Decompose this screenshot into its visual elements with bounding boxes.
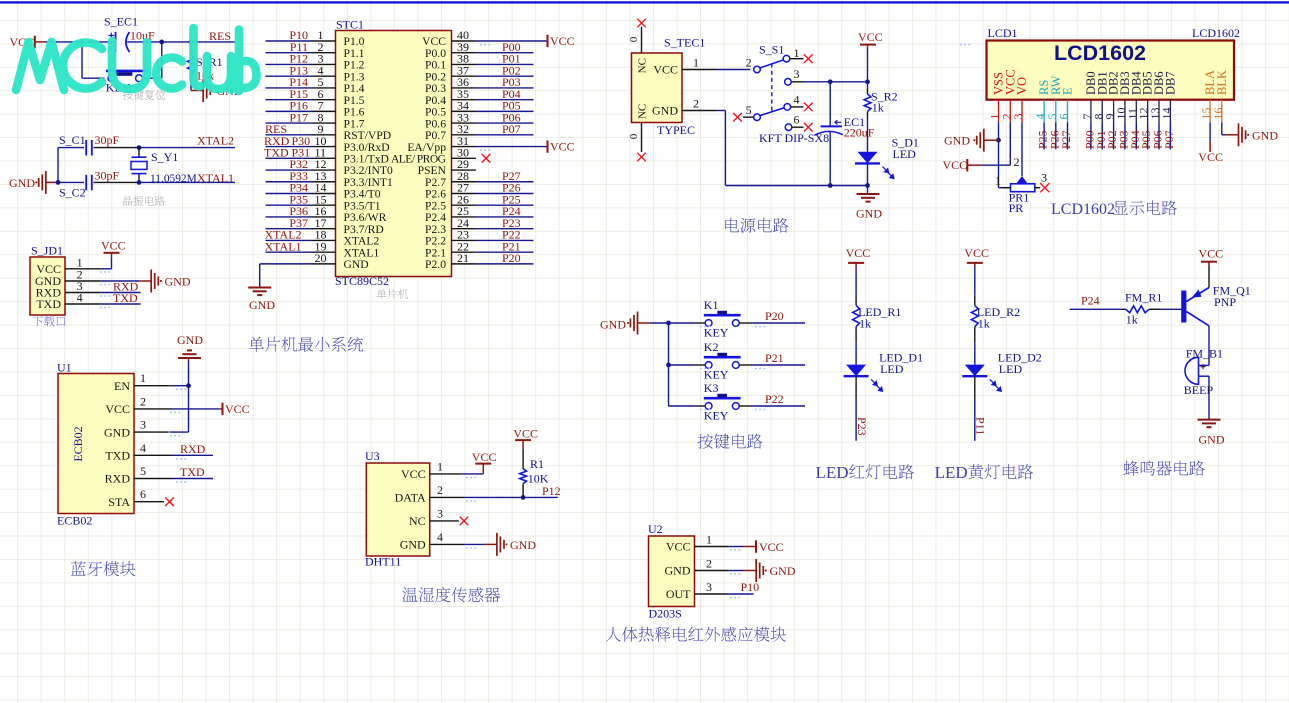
- pin 33: [452, 122, 476, 124]
- svg-text:P11: P11: [974, 417, 988, 435]
- wire: [717, 110, 726, 112]
- no-connect ALE: [482, 154, 491, 163]
- node pwr-led-bot: [865, 183, 870, 188]
- wire: [753, 322, 805, 324]
- node keys-2: [666, 363, 671, 368]
- wire: [266, 87, 312, 89]
- svg-text:20: 20: [315, 251, 327, 265]
- svg-text:GND: GND: [600, 318, 626, 332]
- pin 1: [998, 100, 1000, 123]
- wire: [169, 385, 189, 387]
- svg-text:16: 16: [1211, 108, 1225, 120]
- wire: [1221, 122, 1223, 135]
- key K2: [696, 364, 705, 366]
- pin 37: [452, 75, 476, 77]
- wire: [669, 322, 696, 324]
- wire: [753, 405, 805, 407]
- svg-text:P07: P07: [502, 122, 521, 136]
- wire: [476, 181, 534, 183]
- wire: [58, 181, 84, 183]
- capacitor S_C2: [85, 175, 87, 191]
- pin 19: [312, 251, 336, 253]
- svg-text:3: 3: [1041, 171, 1047, 185]
- svg-text:P20: P20: [765, 309, 784, 323]
- pin 6: [312, 99, 336, 101]
- node u1-gnd: [186, 383, 191, 388]
- svg-text:E: E: [1061, 87, 1075, 95]
- wire: [266, 134, 312, 136]
- svg-text:4: 4: [140, 441, 146, 455]
- svg-text:D203S: D203S: [649, 607, 682, 621]
- wire: [1208, 266, 1210, 288]
- wire: [266, 40, 312, 42]
- wire: [476, 228, 534, 230]
- wire: [974, 267, 976, 296]
- wire: [127, 41, 236, 43]
- wire: [476, 239, 534, 241]
- svg-text:K2: K2: [704, 340, 719, 354]
- pin 16: [312, 216, 336, 218]
- resistor FM_R1: [1122, 308, 1126, 310]
- svg-text:VCC: VCC: [105, 402, 130, 416]
- key K3: [696, 405, 705, 407]
- svg-text:S_C2: S_C2: [59, 186, 86, 200]
- svg-text:LCD1: LCD1: [988, 26, 1018, 40]
- wire: [172, 408, 220, 410]
- wire: [465, 543, 485, 545]
- svg-text:1k: 1k: [978, 317, 990, 331]
- pin 3: [695, 593, 729, 595]
- label 下载口: [33, 316, 66, 327]
- wire: [465, 496, 558, 498]
- power ground GND (S_JD1): [139, 280, 151, 282]
- svg-text:GND: GND: [104, 425, 130, 439]
- power port VCC (U3): [482, 464, 484, 474]
- svg-text:3: 3: [140, 418, 146, 432]
- buzzer FM_B1: [1185, 357, 1199, 384]
- svg-text:ECB02: ECB02: [57, 514, 92, 528]
- node pwr-vcc-r3: [865, 79, 870, 84]
- svg-text:21: 21: [457, 251, 469, 265]
- pin 3: [312, 63, 336, 65]
- svg-text:STC89C52: STC89C52: [335, 274, 389, 288]
- pin 4: [134, 454, 172, 456]
- wire: [476, 204, 534, 206]
- wire: [82, 77, 105, 79]
- pin 6: [785, 124, 792, 131]
- svg-text:EN: EN: [114, 379, 130, 393]
- pin 3: [430, 520, 459, 522]
- svg-text:4: 4: [77, 291, 83, 305]
- svg-text:GND: GND: [249, 298, 275, 312]
- svg-text:GND: GND: [1252, 128, 1278, 142]
- svg-text:NC: NC: [637, 104, 649, 119]
- wire: [476, 110, 534, 112]
- svg-text:30pF: 30pF: [95, 133, 120, 147]
- svg-text:KEY: KEY: [704, 409, 729, 423]
- svg-text:P10: P10: [741, 580, 760, 594]
- svg-text:6: 6: [1057, 114, 1071, 120]
- wire: [266, 192, 312, 194]
- wire: [139, 181, 235, 183]
- resistor S_R1: [190, 42, 192, 55]
- svg-text:LCD1602: LCD1602: [1051, 201, 1115, 218]
- wire: [170, 431, 189, 433]
- svg-text:VCC: VCC: [858, 30, 883, 44]
- earth ground (STC1): [248, 288, 271, 296]
- svg-text:NC: NC: [409, 514, 426, 528]
- node lcd-gnd: [996, 138, 1001, 143]
- svg-text:GND: GND: [165, 275, 191, 289]
- svg-text:S_EC1: S_EC1: [104, 15, 138, 29]
- svg-text:P22: P22: [765, 392, 784, 406]
- node xtal-gnd: [56, 180, 61, 185]
- wire: [81, 42, 83, 78]
- svg-text:LED: LED: [893, 147, 917, 161]
- wire: [190, 83, 192, 91]
- pin 29: [452, 169, 476, 171]
- wire: [266, 181, 312, 183]
- diode LED_D1 LED: [846, 365, 866, 377]
- wire: [669, 364, 696, 366]
- crystal S_Y1: [138, 148, 140, 158]
- wire: [1090, 122, 1092, 149]
- switch S_S2: [108, 75, 115, 82]
- wire: [1208, 376, 1210, 419]
- wire: [668, 323, 670, 406]
- svg-text:GND: GND: [770, 564, 796, 578]
- pin 5: [754, 114, 761, 121]
- pin 3: [1021, 100, 1023, 123]
- svg-text:VCC: VCC: [513, 426, 538, 440]
- wire: [717, 69, 751, 71]
- svg-text:LCD1602: LCD1602: [1192, 26, 1240, 40]
- svg-text:TXD: TXD: [180, 465, 205, 479]
- svg-text:U3: U3: [365, 449, 380, 463]
- switch blade 5-4: [760, 108, 784, 116]
- svg-text:GND: GND: [665, 564, 691, 578]
- pin 36: [452, 87, 476, 89]
- pin 40: [452, 40, 476, 42]
- svg-text:TXD: TXD: [264, 146, 289, 160]
- wire: [58, 147, 84, 149]
- diode S_D1 LED: [858, 152, 878, 164]
- wire: [266, 146, 312, 148]
- wire: [476, 216, 534, 218]
- svg-text:VCC: VCC: [964, 246, 989, 260]
- pin 2: [682, 110, 717, 112]
- svg-text:5: 5: [140, 464, 146, 478]
- wire: [1158, 122, 1160, 149]
- pin 14: [1169, 100, 1171, 123]
- svg-text:P20: P20: [502, 251, 521, 265]
- pin 2: [134, 408, 172, 410]
- wire: [753, 364, 805, 366]
- pin 4: [65, 303, 101, 305]
- svg-text:3: 3: [1011, 114, 1025, 120]
- svg-text:VCC: VCC: [943, 158, 968, 172]
- pin 4: [430, 543, 465, 545]
- svg-text:GND: GND: [1199, 433, 1225, 447]
- pin 32: [452, 134, 476, 136]
- pin 25: [452, 216, 476, 218]
- pin 0 bottom: [641, 123, 643, 153]
- svg-text:LED: LED: [880, 362, 904, 376]
- wire: [855, 267, 857, 296]
- earth ground (U1): [188, 358, 190, 361]
- wire: [101, 268, 112, 270]
- pin 30: [452, 157, 476, 159]
- pin 8: [1101, 100, 1103, 123]
- pin 3: [785, 79, 792, 86]
- wire: [172, 454, 213, 456]
- svg-text:P17: P17: [289, 110, 308, 124]
- svg-text:P24: P24: [1081, 294, 1100, 308]
- svg-text:STC1: STC1: [336, 18, 364, 32]
- wire: [867, 163, 869, 185]
- svg-text:1: 1: [437, 460, 443, 474]
- wire: [266, 63, 312, 65]
- svg-text:P2.0: P2.0: [425, 258, 446, 271]
- pin 15: [1209, 100, 1211, 123]
- wire: [1208, 326, 1210, 366]
- wire: [974, 342, 976, 364]
- pin 1: [430, 473, 462, 475]
- svg-text:LED: LED: [935, 463, 968, 482]
- svg-text:S_C1: S_C1: [59, 133, 86, 147]
- node reset-3: [189, 40, 194, 45]
- node keys-1: [666, 321, 671, 326]
- label 单片机最小系统: [249, 337, 364, 352]
- svg-text:1: 1: [693, 56, 699, 70]
- svg-text:6: 6: [794, 113, 800, 127]
- svg-text:LCD1602: LCD1602: [1054, 41, 1146, 65]
- svg-text:3: 3: [437, 507, 443, 521]
- wire: [266, 216, 312, 218]
- sheet top border: [0, 1, 1289, 3]
- svg-text:R1: R1: [530, 457, 544, 471]
- svg-text:P27: P27: [1059, 130, 1073, 149]
- svg-text:DATA: DATA: [395, 491, 426, 505]
- pin 20: [312, 263, 336, 265]
- node reset-2: [159, 40, 164, 45]
- power port VCC (BLA): [1209, 141, 1211, 152]
- svg-text:1k: 1k: [1126, 313, 1138, 327]
- pin 3: [65, 292, 101, 294]
- wire: [476, 134, 534, 136]
- svg-text:TXD: TXD: [36, 297, 61, 311]
- wire: [260, 263, 312, 265]
- svg-text:FM_R1: FM_R1: [1125, 291, 1162, 305]
- svg-text:VCC: VCC: [225, 402, 250, 416]
- pin 1: [134, 385, 169, 387]
- pin 7: [1090, 100, 1092, 123]
- wire: [1055, 122, 1057, 149]
- wire: [1124, 122, 1126, 149]
- wire: [101, 280, 139, 282]
- pin 2: [695, 570, 729, 572]
- wire: [462, 473, 484, 475]
- label 按键电路: [698, 434, 763, 449]
- svg-text:220uF: 220uF: [844, 126, 875, 140]
- svg-text:S_TEC1: S_TEC1: [664, 36, 705, 50]
- pin 15: [312, 204, 336, 206]
- pin 31: [452, 146, 476, 148]
- watermark MCUclub: [16, 28, 257, 91]
- no-connect PR1-3: [1040, 183, 1049, 192]
- pin 17: [312, 228, 336, 230]
- no-connect S_S1-5: [733, 113, 742, 122]
- svg-text:VCC: VCC: [846, 246, 871, 260]
- svg-text:VCC: VCC: [1198, 150, 1223, 164]
- svg-text:RES: RES: [209, 29, 231, 43]
- svg-text:1: 1: [794, 46, 800, 60]
- svg-text:STA: STA: [108, 495, 130, 509]
- pin 16: [1221, 100, 1223, 123]
- no-connect NC: [460, 517, 469, 526]
- svg-text:5: 5: [746, 103, 752, 117]
- wire: [729, 546, 744, 548]
- pin 7: [312, 110, 336, 112]
- no-connect STA: [165, 497, 174, 506]
- svg-text:XTAL1: XTAL1: [265, 239, 302, 253]
- wire: [139, 147, 235, 149]
- wire: [855, 376, 857, 400]
- pin 4: [312, 75, 336, 77]
- svg-text:GND: GND: [400, 538, 426, 552]
- potentiometer PR1 PR: [1017, 176, 1028, 183]
- earth ground (buzzer): [1198, 420, 1221, 428]
- wire: [266, 169, 312, 171]
- svg-text:FM_B1: FM_B1: [1186, 347, 1223, 361]
- wire: [1043, 122, 1045, 149]
- svg-text:4: 4: [794, 92, 800, 106]
- svg-text:TXD: TXD: [105, 449, 130, 463]
- wire: [143, 77, 162, 79]
- svg-text:VCC: VCC: [401, 467, 426, 481]
- svg-text:GND: GND: [344, 258, 369, 271]
- pin 2: [1009, 100, 1011, 123]
- wire: [45, 41, 116, 43]
- svg-text:4: 4: [437, 530, 443, 544]
- svg-text:P21: P21: [765, 351, 784, 365]
- pin 27: [452, 192, 476, 194]
- pin 9: [312, 134, 336, 136]
- wire: [1169, 122, 1171, 149]
- svg-text:RXD: RXD: [105, 472, 131, 486]
- pin 39: [452, 52, 476, 54]
- svg-text:10uF: 10uF: [130, 29, 155, 43]
- pin 9: [1113, 100, 1115, 123]
- svg-text:GND: GND: [177, 333, 203, 347]
- node pwr-ec1-bot: [828, 183, 833, 188]
- pin 10: [1124, 100, 1126, 123]
- pin 1: [695, 546, 729, 548]
- wire: [998, 122, 1000, 187]
- svg-text:GND: GND: [9, 176, 35, 190]
- pin 23: [452, 239, 476, 241]
- wire: [1009, 122, 1011, 165]
- wire: [476, 52, 534, 54]
- wire: [1067, 122, 1069, 149]
- wire: [266, 99, 312, 101]
- svg-text:GND: GND: [652, 104, 678, 118]
- wire: [476, 192, 534, 194]
- svg-text:K3: K3: [704, 381, 719, 395]
- svg-text:30pF: 30pF: [95, 169, 120, 183]
- wire: [266, 228, 312, 230]
- wire: [172, 478, 213, 480]
- wire: [94, 181, 140, 183]
- svg-text:VCC: VCC: [550, 34, 575, 48]
- label 晶振电路: [123, 196, 165, 206]
- wire: [266, 75, 312, 77]
- pin 22: [452, 251, 476, 253]
- pin 35: [452, 99, 476, 101]
- wire: [476, 63, 534, 65]
- svg-text:NC: NC: [637, 58, 649, 73]
- wire: [1135, 122, 1137, 149]
- wire: [1021, 122, 1023, 176]
- label 电源电路: [725, 218, 788, 233]
- wire: [188, 386, 190, 432]
- svg-text:1: 1: [140, 371, 146, 385]
- svg-text:11.0592M: 11.0592M: [150, 173, 197, 185]
- svg-text:2: 2: [1014, 155, 1020, 169]
- node dht-data: [521, 495, 526, 500]
- pin 8: [312, 122, 336, 124]
- svg-text:GND: GND: [856, 207, 882, 221]
- pin 4: [1043, 100, 1045, 123]
- label 按键复位: [123, 90, 165, 100]
- pin 13: [1158, 100, 1160, 123]
- pin 18: [312, 239, 336, 241]
- wire: [1101, 122, 1103, 149]
- svg-text:3: 3: [794, 67, 800, 81]
- svg-text:XTAL2: XTAL2: [197, 134, 234, 148]
- wire: [101, 292, 141, 294]
- svg-text:GND: GND: [944, 133, 970, 147]
- wire: [476, 75, 534, 77]
- pin 5: [312, 87, 336, 89]
- wire: [650, 322, 669, 324]
- label 温湿度传感器: [402, 587, 500, 602]
- svg-text:1: 1: [706, 532, 712, 546]
- wire: [188, 361, 190, 386]
- svg-text:0: 0: [628, 36, 640, 42]
- svg-text:VCC: VCC: [666, 540, 691, 554]
- wire: [161, 42, 163, 78]
- capacitor EC1: [829, 82, 831, 126]
- power port VCC (U1): [220, 408, 222, 410]
- wire: [266, 52, 312, 54]
- svg-text:VCC: VCC: [472, 450, 497, 464]
- node pwr-row3-ec1: [828, 79, 833, 84]
- svg-text:2: 2: [706, 556, 712, 570]
- svg-text:DB7: DB7: [1163, 71, 1177, 95]
- pin 14: [312, 192, 336, 194]
- label 人体热释电红外感应模块: [606, 627, 786, 642]
- svg-text:S_S1: S_S1: [759, 43, 784, 57]
- wire: [669, 405, 696, 407]
- svg-text:1: 1: [995, 174, 1001, 188]
- svg-text:0: 0: [628, 133, 640, 139]
- pin 5: [134, 478, 172, 480]
- wire: [476, 251, 534, 253]
- svg-text:10K: 10K: [528, 472, 549, 486]
- pin 26: [452, 204, 476, 206]
- svg-text:VCC: VCC: [101, 239, 126, 253]
